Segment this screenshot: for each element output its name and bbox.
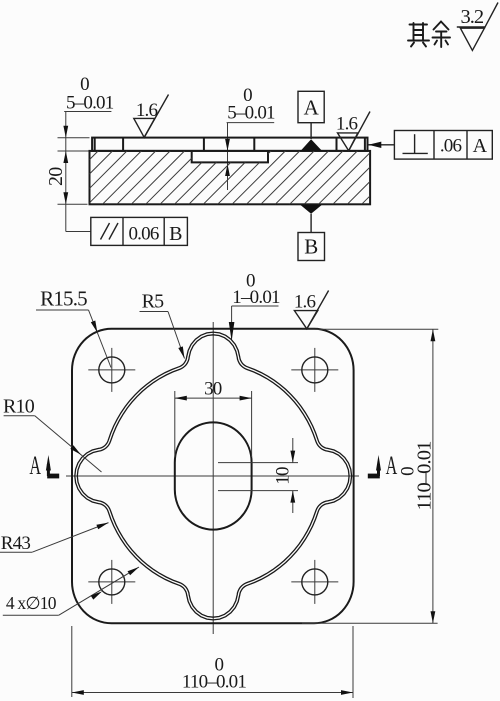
svg-text:1.6: 1.6 [136,100,158,121]
svg-text:5–0.01: 5–0.01 [66,92,114,113]
svg-text:B: B [304,235,318,259]
svg-text:3.2: 3.2 [460,6,483,28]
svg-text:1.6: 1.6 [294,292,316,313]
svg-text:110–0.01: 110–0.01 [182,672,246,693]
svg-text:30: 30 [204,379,222,400]
svg-text:.06: .06 [440,136,462,157]
svg-text:1.6: 1.6 [336,114,358,135]
svg-text:A: A [304,96,320,120]
svg-text:A: A [473,135,488,157]
svg-text:A: A [29,451,41,480]
svg-text:5–0.01: 5–0.01 [227,103,275,124]
svg-text:R10: R10 [3,396,35,418]
svg-text:4 x∅10: 4 x∅10 [6,593,57,613]
svg-text:B: B [169,223,182,245]
svg-text:R15.5: R15.5 [40,287,87,311]
svg-text:10: 10 [272,467,293,485]
svg-text:1–0.01: 1–0.01 [232,287,280,308]
svg-text:20: 20 [45,167,67,186]
svg-text:R43: R43 [1,533,31,554]
svg-text:0.06: 0.06 [128,224,158,245]
svg-text:A: A [386,451,398,480]
svg-text:R5: R5 [142,291,165,313]
svg-text:0: 0 [398,467,419,476]
